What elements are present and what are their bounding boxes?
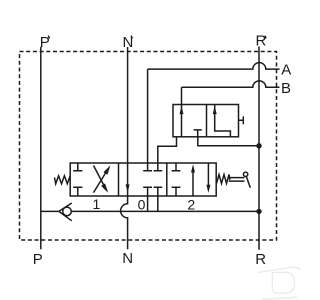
- svg-text:A: A: [281, 62, 291, 79]
- svg-text:0: 0: [138, 196, 146, 212]
- svg-text:R: R: [255, 251, 266, 268]
- svg-text:N: N: [123, 34, 134, 51]
- svg-text:P: P: [40, 34, 50, 51]
- svg-text:1: 1: [93, 196, 101, 212]
- svg-text:B: B: [281, 80, 291, 97]
- svg-text:P: P: [33, 251, 43, 268]
- svg-text:2: 2: [187, 197, 195, 213]
- svg-text:N: N: [122, 250, 133, 267]
- svg-text:R: R: [256, 33, 267, 50]
